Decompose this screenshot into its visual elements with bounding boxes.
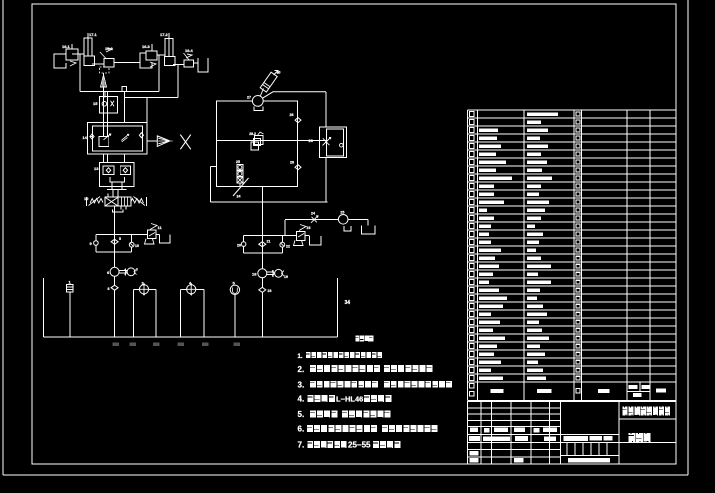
- svg-text:1: 1: [69, 280, 72, 285]
- svg-text:22: 22: [286, 245, 290, 249]
- svg-text:24: 24: [311, 212, 315, 216]
- svg-text:5.: 5.: [298, 410, 305, 419]
- svg-text:14: 14: [82, 135, 87, 140]
- svg-text:16.3: 16.3: [142, 44, 151, 49]
- svg-text:1.: 1.: [298, 354, 303, 360]
- svg-text:18: 18: [252, 272, 257, 277]
- svg-text:34: 34: [345, 300, 351, 306]
- svg-text:25: 25: [236, 160, 240, 164]
- svg-text:8: 8: [108, 287, 110, 291]
- svg-text:30: 30: [277, 71, 281, 75]
- svg-text:16.2: 16.2: [105, 46, 114, 51]
- svg-text:L−HL46: L−HL46: [336, 395, 363, 404]
- svg-text:19: 19: [284, 275, 288, 279]
- svg-text:16.1: 16.1: [62, 44, 71, 49]
- svg-text:5: 5: [119, 237, 121, 241]
- svg-text:28: 28: [290, 161, 294, 165]
- svg-text:24: 24: [237, 195, 241, 199]
- svg-text:23: 23: [307, 226, 311, 230]
- svg-text:28: 28: [290, 113, 294, 117]
- svg-text:27: 27: [247, 96, 251, 100]
- svg-text:26: 26: [309, 138, 314, 143]
- svg-text:11: 11: [158, 225, 163, 230]
- svg-text:3.: 3.: [298, 380, 305, 389]
- svg-text:21: 21: [267, 240, 271, 244]
- svg-text:10: 10: [135, 244, 139, 248]
- svg-text:23: 23: [268, 289, 272, 293]
- svg-text:20: 20: [237, 244, 241, 248]
- svg-text:15: 15: [93, 101, 98, 106]
- svg-text:4.: 4.: [298, 394, 305, 403]
- svg-text:2.: 2.: [298, 365, 305, 374]
- svg-text:6.: 6.: [298, 425, 305, 434]
- svg-text:7: 7: [136, 268, 138, 272]
- svg-text:12: 12: [84, 196, 89, 201]
- svg-text:25: 25: [340, 211, 344, 215]
- svg-text:9: 9: [90, 241, 93, 246]
- svg-text:17.2: 17.2: [160, 32, 169, 37]
- svg-text:28.2: 28.2: [249, 132, 256, 136]
- svg-text:7.: 7.: [298, 440, 305, 449]
- svg-text:16.4: 16.4: [185, 48, 194, 53]
- svg-text:17.1: 17.1: [89, 32, 98, 37]
- svg-text:13: 13: [94, 166, 99, 171]
- svg-text:6: 6: [107, 270, 110, 275]
- svg-text:25−55: 25−55: [348, 441, 371, 450]
